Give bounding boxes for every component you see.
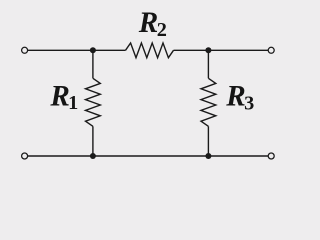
junction node bottom-right bbox=[205, 153, 211, 159]
wire left branch upper bbox=[92, 50, 94, 78]
resistor R1 (vertical zigzag) bbox=[86, 78, 101, 126]
wire right branch lower bbox=[207, 126, 209, 156]
wire bottom rail bbox=[28, 155, 268, 157]
wire top-right segment bbox=[174, 49, 269, 51]
resistor R2 (horizontal zigzag) bbox=[126, 43, 174, 58]
wire top-left segment bbox=[28, 49, 126, 51]
junction node top-left bbox=[90, 47, 96, 53]
junction node top-right bbox=[205, 47, 211, 53]
terminal top-left bbox=[22, 47, 28, 53]
junction node bottom-left bbox=[90, 153, 96, 159]
terminal top-right bbox=[268, 47, 274, 53]
wire right branch upper bbox=[207, 50, 209, 78]
terminal bottom-right bbox=[268, 153, 274, 159]
wire left branch lower bbox=[92, 126, 94, 156]
resistor R3 (vertical zigzag) bbox=[201, 78, 216, 126]
terminal bottom-left bbox=[22, 153, 28, 159]
